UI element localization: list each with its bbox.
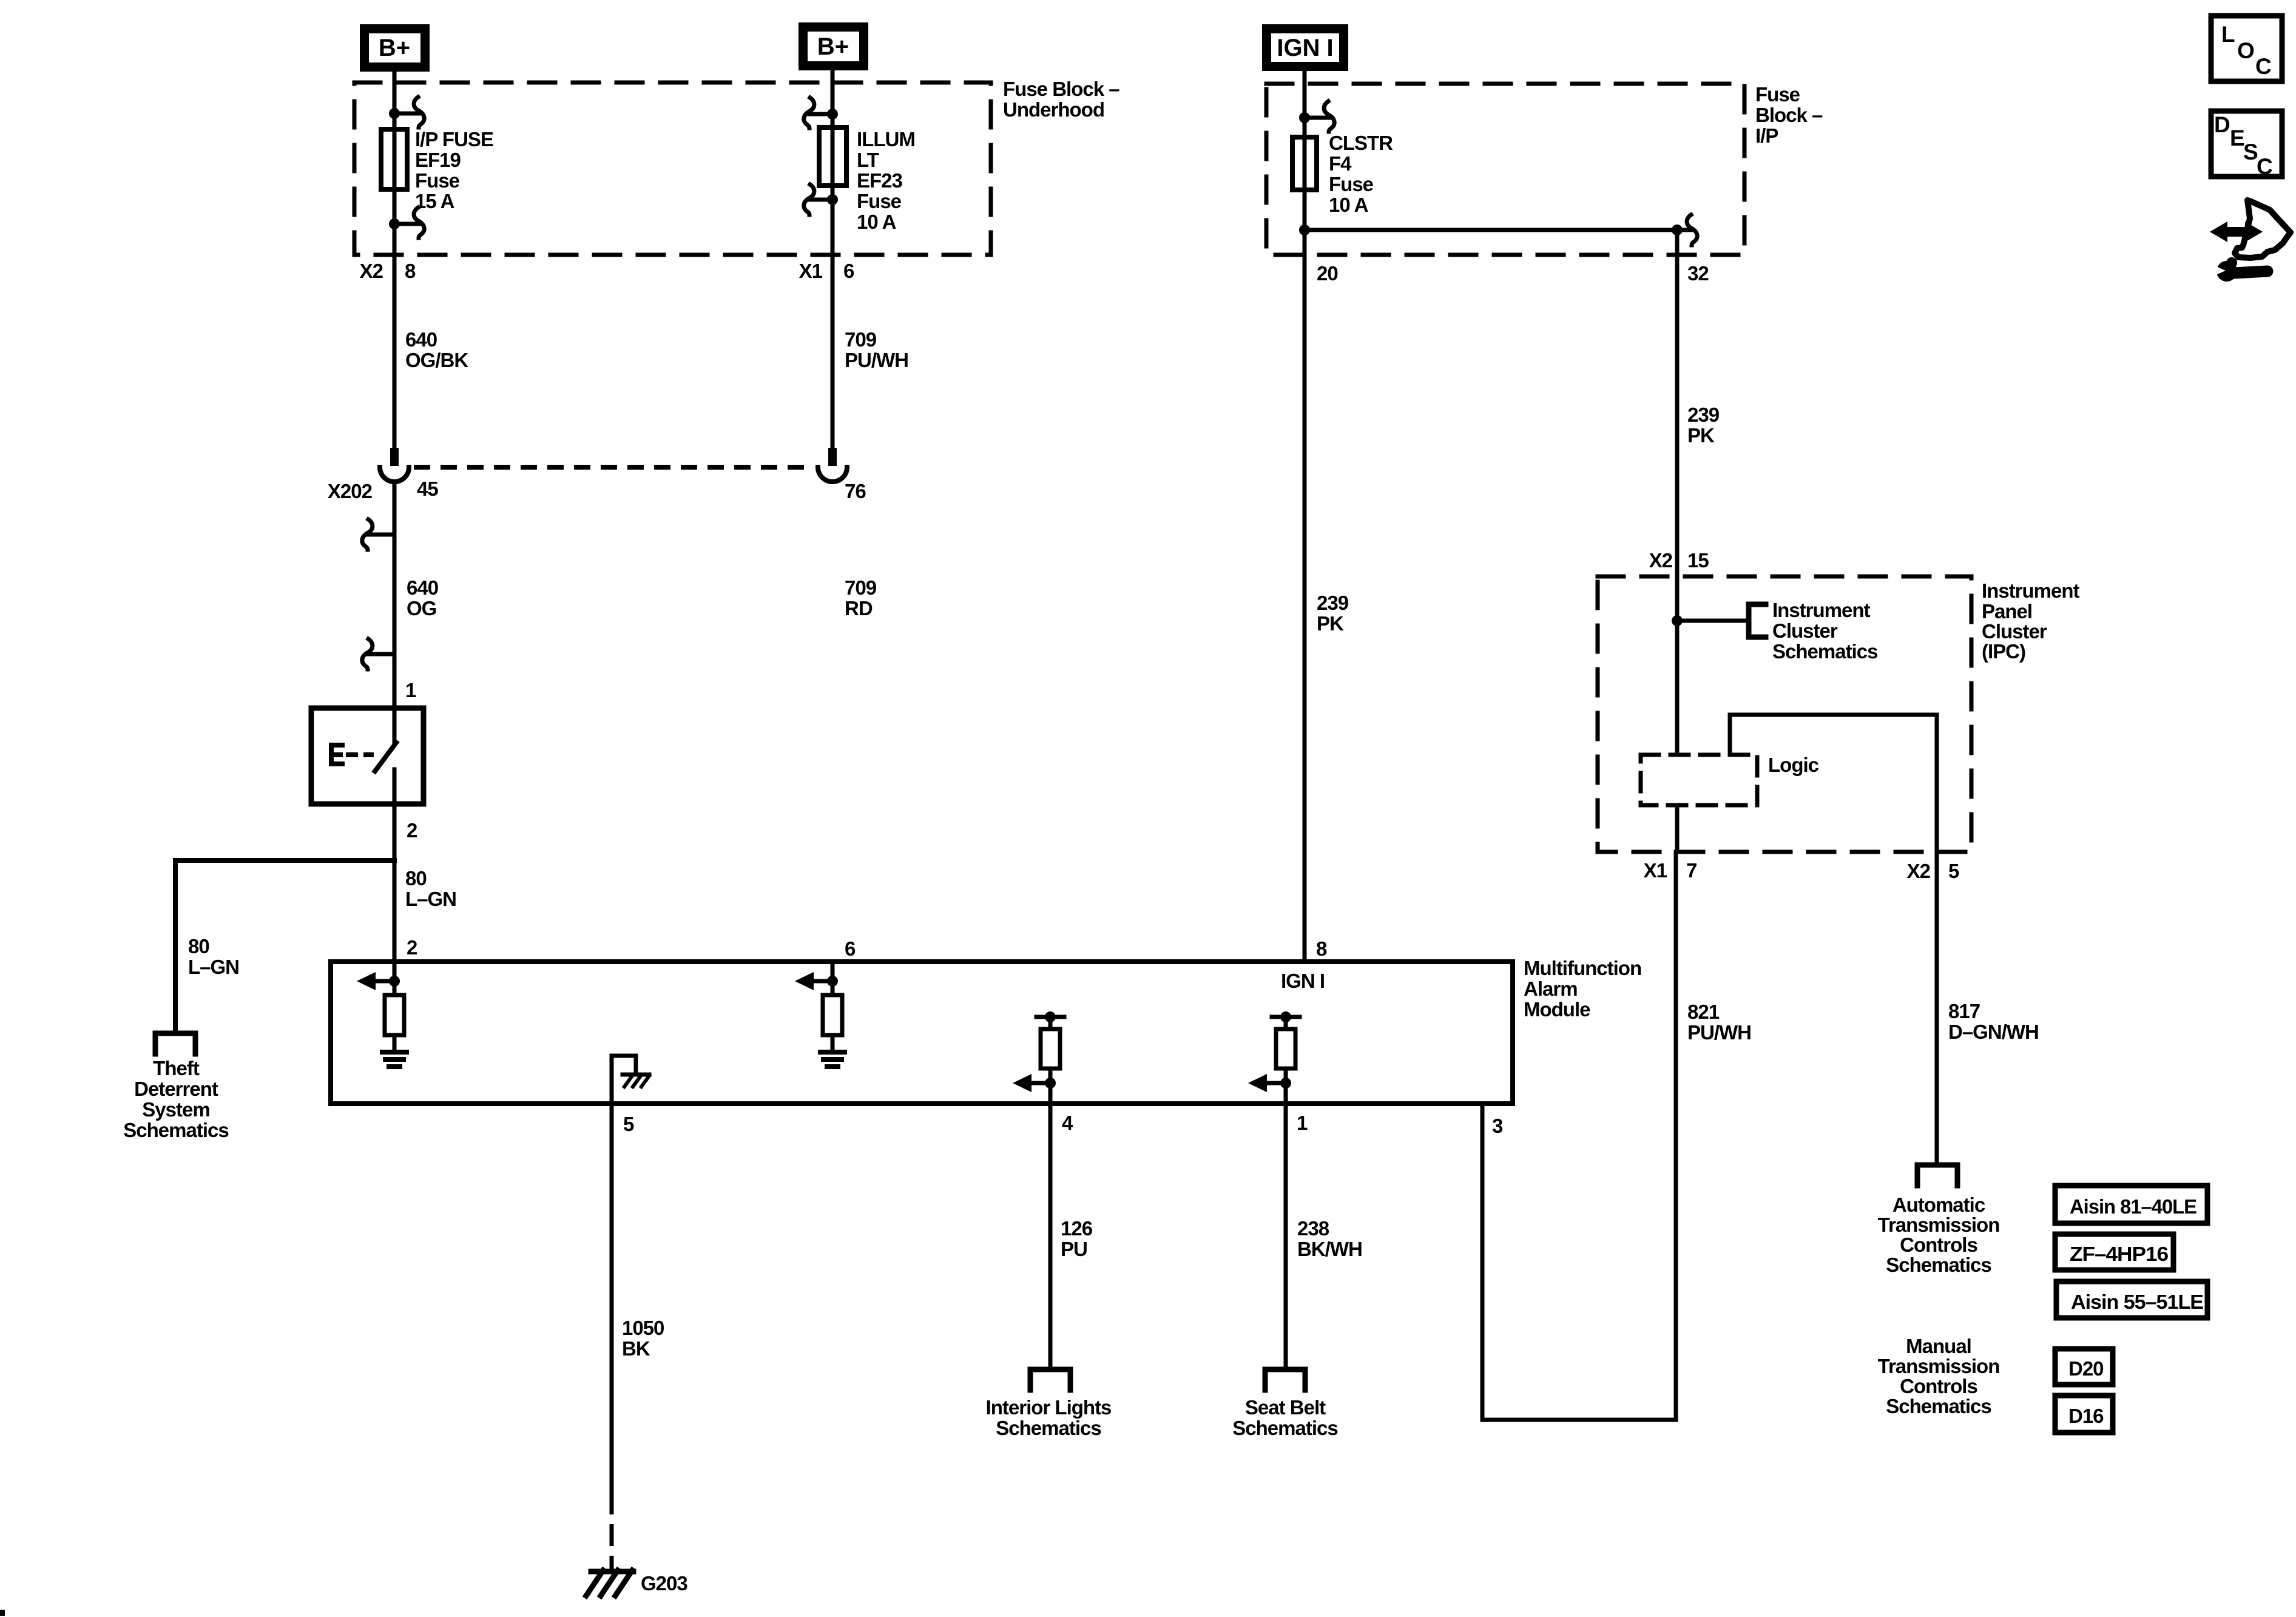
- svg-text:D–GN/WH: D–GN/WH: [1948, 1021, 2039, 1043]
- wire X2 15 into IPC: [1675, 576, 1680, 755]
- svg-text:(IPC): (IPC): [1982, 640, 2025, 663]
- svg-text:Manual: Manual: [1906, 1335, 1971, 1357]
- svg-text:X2: X2: [1907, 860, 1931, 882]
- svg-text:G203: G203: [641, 1572, 687, 1595]
- connector clip below fuse EF19: [389, 218, 400, 229]
- svg-text:80: 80: [188, 935, 209, 957]
- fuse EF19 label: [415, 128, 493, 212]
- wire pin 4 to interior lights: [1048, 1104, 1053, 1370]
- fuse EF23 label: [857, 128, 915, 233]
- svg-text:126: 126: [1061, 1217, 1093, 1240]
- module element at pin 2: arrow, resistor, ground: [357, 962, 407, 1067]
- wire W1 from switch to module: [393, 804, 397, 962]
- svg-text:238: 238: [1297, 1217, 1329, 1240]
- label instrument cluster schematics: [1772, 599, 1877, 663]
- fuse EF23: [819, 127, 846, 186]
- svg-text:CLSTR: CLSTR: [1329, 132, 1393, 154]
- box D20: [2055, 1349, 2113, 1385]
- connector clip above fuse EF23: [827, 109, 838, 120]
- svg-text:B+: B+: [379, 35, 410, 61]
- logic dashed box: [1641, 755, 1757, 805]
- connector X202 dotted line: [414, 465, 814, 470]
- svg-text:PK: PK: [1687, 424, 1715, 447]
- svg-text:Fuse: Fuse: [1755, 83, 1800, 106]
- svg-text:PU/WH: PU/WH: [1687, 1021, 1751, 1044]
- svg-text:15 A: 15 A: [415, 190, 454, 212]
- svg-text:6: 6: [843, 260, 854, 282]
- svg-text:7: 7: [1686, 859, 1697, 882]
- fuse block underhood dashed box: [354, 83, 991, 255]
- svg-text:I/P FUSE: I/P FUSE: [415, 128, 493, 150]
- svg-text:Seat Belt: Seat Belt: [1245, 1396, 1326, 1419]
- clip on wire below X202: [368, 533, 394, 537]
- svg-text:4: 4: [1062, 1112, 1073, 1134]
- svg-text:Block –: Block –: [1755, 104, 1823, 126]
- svg-text:D16: D16: [2068, 1405, 2104, 1427]
- svg-text:Cluster: Cluster: [1772, 619, 1838, 642]
- svg-text:10 A: 10 A: [1329, 194, 1368, 216]
- svg-text:Fuse: Fuse: [1329, 173, 1374, 195]
- svg-text:E: E: [2230, 126, 2245, 150]
- wire logic down to X1 7: [1675, 805, 1680, 852]
- clip on wire above switch: [368, 652, 394, 657]
- ignition key alarm switch S1: [311, 708, 424, 804]
- svg-text:ILLUM: ILLUM: [857, 128, 915, 150]
- svg-text:Schematics: Schematics: [123, 1119, 228, 1141]
- svg-text:8: 8: [405, 260, 416, 282]
- svg-text:80: 80: [405, 867, 427, 890]
- svg-text:5: 5: [1948, 860, 1959, 882]
- svg-text:Deterrent: Deterrent: [134, 1078, 218, 1100]
- label manual transmission controls schematics: [1878, 1335, 2000, 1417]
- svg-text:L–GN: L–GN: [405, 888, 456, 910]
- fuse F4: [1292, 137, 1317, 190]
- svg-text:1: 1: [405, 679, 416, 701]
- fuse F4 label: [1329, 132, 1393, 216]
- svg-text:10 A: 10 A: [857, 211, 896, 233]
- svg-text:Underhood: Underhood: [1003, 98, 1104, 121]
- svg-text:2: 2: [407, 936, 417, 959]
- wire pin 3 to X1 7 loop: [1482, 852, 1676, 1420]
- wire X2 5 down to automatic transmission: [1935, 852, 1939, 1165]
- wire W3: IGN I to fuse F4 down to module pin 8: [1303, 71, 1307, 962]
- svg-text:Fuse: Fuse: [857, 190, 902, 212]
- svg-text:640: 640: [407, 576, 438, 599]
- svg-text:Aisin 55–51LE: Aisin 55–51LE: [2071, 1291, 2203, 1313]
- page artifact dot bottom-left: [0, 1610, 5, 1616]
- svg-text:Interior Lights: Interior Lights: [986, 1396, 1112, 1419]
- svg-text:EF19: EF19: [415, 149, 461, 171]
- node junction at pin 32: [1672, 224, 1683, 235]
- icon double arrow: [2210, 221, 2263, 242]
- svg-text:Instrument: Instrument: [1772, 599, 1871, 621]
- svg-text:D: D: [2214, 112, 2230, 137]
- svg-text:Theft: Theft: [153, 1057, 200, 1079]
- terminal to theft deterrent: [155, 1033, 195, 1054]
- svg-text:O: O: [2237, 38, 2255, 63]
- wire to cluster bracket: [1677, 619, 1747, 623]
- svg-text:Transmission: Transmission: [1878, 1214, 2000, 1236]
- fuse EF19: [381, 129, 407, 189]
- svg-text:I/P: I/P: [1755, 124, 1778, 147]
- box Aisin 81-40LE: [2055, 1186, 2207, 1223]
- svg-text:X1: X1: [1644, 859, 1667, 882]
- svg-text:Schematics: Schematics: [1886, 1254, 1991, 1276]
- wire W4: pin 32 down to IPC X2 15: [1675, 230, 1680, 576]
- svg-text:1050: 1050: [622, 1317, 664, 1339]
- svg-text:Controls: Controls: [1900, 1375, 1977, 1397]
- connector clip at pin 32: [1677, 228, 1690, 232]
- fuse block I/P dashed box: [1266, 84, 1744, 255]
- svg-text:BK/WH: BK/WH: [1297, 1238, 1362, 1260]
- svg-text:PU/WH: PU/WH: [845, 349, 908, 371]
- switch blade: [375, 743, 396, 771]
- svg-text:S: S: [2243, 140, 2258, 164]
- svg-text:2: 2: [407, 819, 417, 842]
- svg-text:F4: F4: [1329, 152, 1352, 175]
- terminal to interior lights: [1030, 1369, 1070, 1390]
- svg-text:EF23: EF23: [857, 169, 903, 192]
- svg-text:Panel: Panel: [1982, 600, 2032, 623]
- svg-text:Fuse: Fuse: [415, 169, 460, 192]
- connector X202 pin right: [828, 448, 837, 466]
- svg-text:Alarm: Alarm: [1524, 977, 1578, 1000]
- svg-text:Controls: Controls: [1900, 1234, 1977, 1256]
- icon LOC box: [2211, 16, 2282, 81]
- switch pin 1 stub: [393, 706, 397, 743]
- label automatic transmission controls schematics: [1878, 1193, 2000, 1276]
- svg-text:IGN I: IGN I: [1281, 970, 1325, 992]
- svg-text:OG/BK: OG/BK: [405, 349, 468, 371]
- terminal IGN I: [1262, 24, 1348, 71]
- icon wrench: [2210, 257, 2267, 282]
- box Aisin 55-51LE: [2056, 1281, 2207, 1318]
- module element at pin 4: stub, resistor, arrow: [1013, 1011, 1064, 1104]
- bracket instrument cluster schematics: [1749, 604, 1766, 637]
- svg-text:Logic: Logic: [1768, 754, 1819, 776]
- svg-text:BK: BK: [622, 1337, 650, 1360]
- svg-text:Schematics: Schematics: [1772, 640, 1877, 663]
- module element at pin 6: arrow, resistor, ground: [795, 962, 845, 1067]
- svg-text:709: 709: [845, 576, 877, 599]
- svg-text:IGN I: IGN I: [1277, 35, 1333, 61]
- svg-text:LT: LT: [857, 149, 879, 171]
- svg-text:5: 5: [623, 1113, 634, 1135]
- svg-text:32: 32: [1687, 262, 1709, 285]
- wire W1: B+ to fuse EF19 to X202: [393, 72, 397, 448]
- multifunction alarm module box: [331, 962, 1513, 1104]
- connector clip above fuse F4: [1299, 112, 1310, 123]
- svg-text:OG: OG: [407, 597, 436, 619]
- wire pin 1 to seat belt: [1284, 1104, 1288, 1370]
- svg-text:X202: X202: [328, 480, 373, 502]
- wire W1 below X202: [393, 482, 397, 706]
- terminal B+ (second battery feed): [799, 22, 868, 70]
- svg-text:709: 709: [845, 328, 877, 351]
- dashed wire to G203: [610, 1493, 614, 1573]
- svg-text:Fuse Block –: Fuse Block –: [1003, 78, 1119, 100]
- wire pin 5 to G203: [610, 1104, 614, 1493]
- connector X202 cup right: [818, 467, 847, 482]
- svg-text:6: 6: [845, 937, 856, 960]
- terminal to automatic transmission: [1917, 1165, 1957, 1186]
- svg-text:239: 239: [1687, 403, 1720, 426]
- svg-text:8: 8: [1316, 937, 1327, 960]
- svg-text:Schematics: Schematics: [996, 1417, 1101, 1439]
- svg-text:76: 76: [845, 480, 866, 502]
- branch wire to theft deterrent: [175, 860, 394, 1033]
- svg-text:Schematics: Schematics: [1886, 1395, 1991, 1417]
- terminal B+ (left battery feed): [360, 24, 430, 72]
- svg-text:817: 817: [1948, 1000, 1980, 1022]
- node junction to cluster bracket: [1672, 615, 1683, 626]
- svg-text:640: 640: [405, 328, 437, 351]
- module element at pin 1: stub, resistor, arrow: [1248, 1011, 1300, 1104]
- svg-text:L–GN: L–GN: [188, 956, 239, 978]
- svg-text:20: 20: [1317, 262, 1338, 285]
- wire W2: B+ to fuse EF23: [831, 70, 835, 448]
- ground G203: [586, 1570, 633, 1596]
- wire across fuse block I/P: [1305, 228, 1677, 232]
- svg-text:X1: X1: [799, 260, 823, 282]
- svg-text:Aisin 81–40LE: Aisin 81–40LE: [2070, 1195, 2196, 1218]
- label Instrument Panel Cluster (IPC): [1982, 579, 2080, 663]
- svg-text:PU: PU: [1061, 1238, 1087, 1260]
- svg-text:15: 15: [1687, 549, 1709, 572]
- icon connector hand outline: [2235, 200, 2291, 258]
- label Multifunction Alarm Module: [1524, 957, 1641, 1021]
- svg-text:System: System: [142, 1098, 209, 1121]
- box ZF-4HP16: [2055, 1234, 2173, 1270]
- switch pin 2 stub: [393, 769, 397, 806]
- icon DESC box: [2211, 111, 2282, 177]
- svg-text:L: L: [2221, 22, 2235, 47]
- IPC dashed box: [1598, 576, 1971, 852]
- svg-text:B+: B+: [817, 33, 849, 60]
- svg-text:Instrument: Instrument: [1982, 579, 2080, 602]
- terminal to seat belt: [1265, 1369, 1305, 1390]
- svg-text:X2: X2: [1649, 549, 1673, 572]
- svg-text:3: 3: [1492, 1115, 1503, 1137]
- svg-text:239: 239: [1317, 592, 1349, 614]
- svg-text:X2: X2: [360, 260, 383, 282]
- node junction in fuse block I/P: [1299, 224, 1310, 235]
- svg-text:PK: PK: [1317, 612, 1344, 635]
- svg-text:Schematics: Schematics: [1232, 1417, 1337, 1439]
- connector X202 cup left: [380, 467, 409, 482]
- svg-text:D20: D20: [2068, 1357, 2104, 1380]
- svg-text:821: 821: [1687, 1001, 1720, 1023]
- wire logic to X2 5: [1730, 715, 1937, 852]
- svg-text:1: 1: [1297, 1112, 1308, 1134]
- svg-text:Multifunction: Multifunction: [1524, 957, 1641, 979]
- box D16: [2055, 1396, 2113, 1433]
- key symbol E: [331, 745, 342, 764]
- svg-text:Automatic: Automatic: [1893, 1193, 1985, 1216]
- connector clip above fuse EF19: [389, 108, 400, 119]
- svg-text:Cluster: Cluster: [1982, 620, 2047, 643]
- connector X202 pin left: [390, 448, 399, 466]
- svg-text:C: C: [2255, 54, 2272, 79]
- module element at pin 5: elbow to chassis ground: [612, 1056, 649, 1104]
- svg-text:45: 45: [417, 478, 438, 500]
- svg-text:Module: Module: [1524, 998, 1590, 1021]
- label theft deterrent system schematics: [123, 1057, 228, 1141]
- svg-text:RD: RD: [845, 597, 873, 619]
- connector clip below fuse EF23: [827, 194, 838, 205]
- svg-text:ZF–4HP16: ZF–4HP16: [2070, 1243, 2169, 1265]
- svg-text:C: C: [2257, 154, 2273, 179]
- svg-text:Transmission: Transmission: [1878, 1355, 2000, 1377]
- key dashes: [346, 752, 374, 757]
